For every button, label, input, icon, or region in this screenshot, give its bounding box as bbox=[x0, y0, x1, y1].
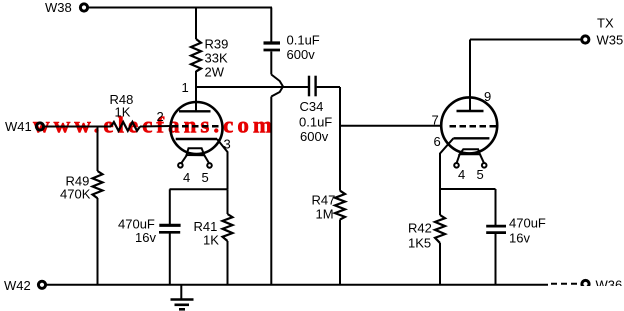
svg-text:W42: W42 bbox=[4, 278, 31, 293]
wire R47 bottom to rail bbox=[339, 220, 341, 285]
svg-text:0.1uF: 0.1uF bbox=[299, 115, 332, 130]
capacitor 470uF 16v plates bbox=[159, 224, 180, 227]
svg-text:5: 5 bbox=[202, 170, 209, 185]
svg-text:W38: W38 bbox=[45, 0, 72, 15]
svg-text:9: 9 bbox=[484, 89, 491, 104]
tube V2 cathode bbox=[453, 137, 489, 139]
wire R39 top lead bbox=[195, 8, 197, 40]
resistor R49 bbox=[93, 171, 103, 198]
wire cathode junction V2 bbox=[440, 188, 496, 190]
svg-text:www.elecfans.com: www.elecfans.com bbox=[33, 113, 272, 138]
svg-text:2: 2 bbox=[157, 109, 164, 124]
terminal W42 bbox=[38, 281, 45, 288]
wire R42 bottom to rail bbox=[439, 243, 441, 285]
tube V2 heater bbox=[460, 149, 480, 154]
wire 0.1uF bottom lead bbox=[270, 52, 272, 75]
tube V1 envelope bbox=[171, 102, 223, 154]
wire tube V1 heater legs bbox=[181, 155, 187, 163]
resistor R41 bbox=[223, 214, 233, 241]
pin 5 circle tube V1 bbox=[207, 163, 212, 168]
capacitor 470uF top lead bbox=[169, 189, 171, 224]
wire 0.1uF to ground rail bbox=[270, 97, 272, 285]
wire ground rail bbox=[47, 284, 549, 286]
tube V1 plate bar bbox=[179, 110, 211, 112]
svg-text:600v: 600v bbox=[287, 47, 316, 62]
capacitor 470uF2 16v plates bbox=[486, 225, 506, 228]
svg-text:W36: W36 bbox=[596, 278, 623, 293]
capacitor 0.1uF 600v plates bbox=[264, 41, 281, 44]
wire W41 to R48 bbox=[45, 126, 112, 128]
svg-text:W35: W35 bbox=[597, 33, 624, 48]
resistor R47 bbox=[335, 191, 345, 220]
svg-text:W41: W41 bbox=[5, 119, 32, 134]
pin 4 circle tube V2 bbox=[454, 163, 459, 168]
wire C34 down to R47 bbox=[339, 87, 341, 191]
svg-text:16v: 16v bbox=[509, 231, 530, 246]
capacitor 0.1uF top lead bbox=[270, 8, 272, 42]
svg-text:1M: 1M bbox=[316, 207, 334, 222]
ground symbol bbox=[180, 285, 182, 300]
wire R49 bottom to rail bbox=[97, 198, 99, 285]
tube V1 heater bbox=[187, 148, 205, 155]
svg-text:C34: C34 bbox=[300, 99, 324, 114]
svg-text:1K: 1K bbox=[115, 105, 131, 120]
terminal W36 half visible bbox=[582, 280, 589, 287]
wire cathode junction V1 bbox=[170, 188, 228, 190]
svg-text:16v: 16v bbox=[135, 230, 156, 245]
wire 470uF2 bottom lead bbox=[495, 234, 497, 285]
wire dashed rail to W36 bbox=[551, 283, 580, 285]
wire R41 top lead bbox=[227, 189, 229, 214]
wire grid node to tube2 pin7 bbox=[340, 125, 442, 127]
tube V1 cathode bbox=[176, 138, 217, 140]
resistor R48 bbox=[111, 122, 140, 131]
tube V2 envelope bbox=[441, 97, 497, 153]
wire tube V2 heater legs bbox=[457, 154, 460, 162]
svg-text:1K: 1K bbox=[203, 233, 219, 248]
svg-text:4: 4 bbox=[183, 170, 190, 185]
svg-text:3: 3 bbox=[224, 137, 231, 152]
svg-text:TX: TX bbox=[597, 15, 614, 30]
terminal W35 bbox=[582, 36, 589, 43]
svg-text:1: 1 bbox=[182, 80, 189, 95]
svg-text:4: 4 bbox=[458, 167, 465, 182]
wire C34 right bbox=[317, 86, 340, 88]
pin 5 circle tube V2 bbox=[482, 163, 487, 168]
svg-text:600v: 600v bbox=[300, 129, 329, 144]
wire 470uF bottom lead bbox=[169, 234, 171, 285]
terminal W41 bbox=[36, 123, 43, 130]
svg-text:470K: 470K bbox=[60, 187, 91, 202]
svg-text:2W: 2W bbox=[205, 65, 225, 80]
pin 4 circle tube V1 bbox=[178, 163, 183, 168]
wire hop over node wire bbox=[271, 75, 283, 97]
svg-text:1K5: 1K5 bbox=[408, 236, 431, 251]
wire tube V2 cathode pin6 lead bbox=[440, 138, 453, 189]
svg-text:0.1uF: 0.1uF bbox=[287, 32, 320, 47]
svg-text:R47: R47 bbox=[312, 193, 336, 208]
wire plate V2 to W35 bbox=[470, 39, 582, 41]
svg-text:R39: R39 bbox=[205, 37, 229, 52]
resistor R39 bbox=[191, 39, 201, 72]
svg-text:7: 7 bbox=[432, 113, 439, 128]
terminal W38 bbox=[80, 4, 87, 11]
wire tube V1 cathode pin3 lead bbox=[217, 139, 228, 189]
wire tube V2 plate pin9 lead bbox=[469, 40, 471, 112]
tube V1 grid dashed bbox=[172, 125, 221, 128]
capacitor C34 plates bbox=[308, 76, 310, 97]
wire R48 to tube1 grid pin2 bbox=[140, 125, 171, 128]
svg-text:R42: R42 bbox=[408, 221, 432, 236]
tube V2 grid dashed bbox=[450, 125, 498, 128]
svg-text:6: 6 bbox=[434, 134, 441, 149]
resistor R42 bbox=[435, 215, 445, 243]
capacitor 470uF2 top lead bbox=[495, 189, 497, 225]
wire node1 to C34 bbox=[196, 86, 308, 88]
svg-text:33K: 33K bbox=[205, 51, 228, 66]
wire R39 bottom to tube1 plate pin1 bbox=[195, 71, 197, 111]
svg-text:5: 5 bbox=[477, 167, 484, 182]
svg-text:470uF: 470uF bbox=[509, 216, 546, 231]
tube V2 plate bar bbox=[457, 110, 484, 112]
wire R41 bottom to rail bbox=[227, 241, 229, 285]
wire R49 top lead bbox=[97, 127, 99, 172]
wire R42 top lead bbox=[439, 189, 441, 215]
wire top rail W38 to cap bbox=[89, 7, 273, 9]
